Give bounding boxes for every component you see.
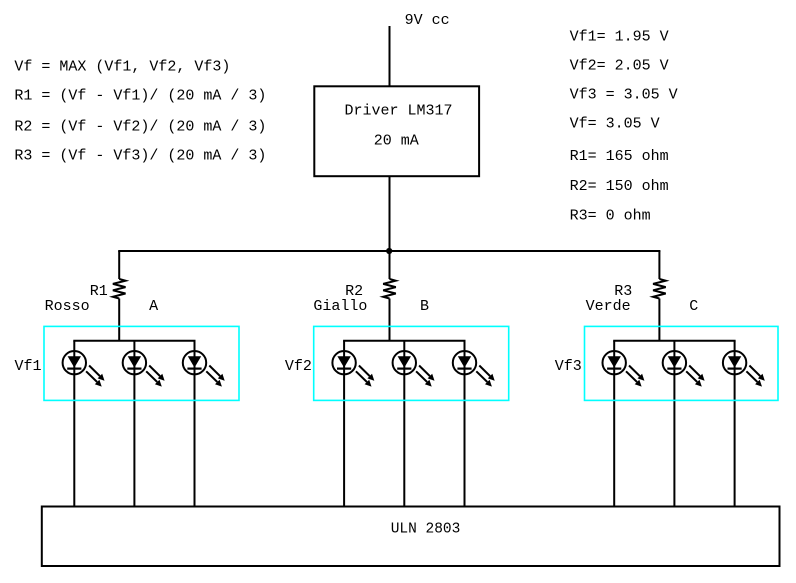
- driver U1: LM317 current regulator box: [314, 86, 479, 176]
- svg-text:Vf1= 1.95 V: Vf1= 1.95 V: [570, 28, 669, 45]
- svg-text:Vf3 = 3.05 V: Vf3 = 3.05 V: [570, 87, 678, 104]
- wire: bus down to resistor R3: [658, 251, 660, 279]
- wire: bus down to resistor R2: [389, 251, 391, 279]
- svg-text:R3 = (Vf - Vf3)/ (20 mA / 3): R3 = (Vf - Vf3)/ (20 mA / 3): [14, 148, 266, 165]
- svg-text:Vf2: Vf2: [285, 358, 312, 375]
- svg-text:R2= 150 ohm: R2= 150 ohm: [570, 178, 669, 195]
- wire: resistor R3 to LED connector: [658, 299, 660, 341]
- wire: LED D7 lead down to ULN2803 input: [613, 341, 615, 507]
- wire: LED D2 lead down to ULN2803 input: [133, 341, 135, 507]
- wire: LED D5 lead down to ULN2803 input: [403, 341, 405, 507]
- LED D9 (Verde): [723, 351, 765, 387]
- wire: horizontal distribution bus: [118, 250, 660, 252]
- resistor R2: [383, 279, 396, 299]
- driver U2: ULN2803 box: [42, 507, 780, 567]
- svg-text:A: A: [149, 298, 158, 315]
- svg-text:20 mA: 20 mA: [374, 133, 419, 150]
- LED group B bounding box (cyan): [314, 326, 509, 400]
- wire: resistor R2 to LED connector: [389, 299, 391, 341]
- svg-text:Giallo: Giallo: [313, 298, 367, 315]
- junction: bus node dot: [386, 248, 392, 254]
- wire: LED group C top connector: [613, 340, 735, 342]
- LED D8 (Verde): [663, 351, 705, 387]
- wire: LED group A top connector: [73, 340, 195, 342]
- wire: LED D3 lead down to ULN2803 input: [194, 341, 196, 507]
- wire: bus down to resistor R1: [118, 251, 120, 279]
- LED group A bounding box (cyan): [44, 326, 239, 400]
- svg-text:Rosso: Rosso: [45, 298, 90, 315]
- wire: 9V supply to driver input: [389, 26, 391, 87]
- wire: LED D9 lead down to ULN2803 input: [734, 341, 736, 507]
- svg-text:Vf = MAX (Vf1, Vf2, Vf3): Vf = MAX (Vf1, Vf2, Vf3): [14, 58, 230, 75]
- svg-text:R1: R1: [90, 283, 108, 300]
- LED D7 (Verde): [603, 351, 645, 387]
- svg-text:R3= 0 ohm: R3= 0 ohm: [570, 207, 651, 224]
- LED D5 (Giallo): [393, 351, 435, 387]
- svg-text:R2 = (Vf - Vf2)/ (20 mA / 3): R2 = (Vf - Vf2)/ (20 mA / 3): [14, 119, 266, 136]
- LED group C bounding box (cyan): [585, 326, 779, 400]
- svg-text:R1= 165 ohm: R1= 165 ohm: [570, 148, 669, 165]
- svg-text:Vf3: Vf3: [555, 358, 582, 375]
- LED D4 (Giallo): [332, 351, 374, 387]
- svg-text:Driver LM317: Driver LM317: [344, 102, 452, 119]
- svg-text:9V cc: 9V cc: [405, 12, 450, 29]
- LED D2 (Rosso): [123, 351, 165, 387]
- resistor R1: [113, 279, 126, 299]
- wire: LED D1 lead down to ULN2803 input: [73, 341, 75, 507]
- wire: LED group B top connector: [343, 340, 465, 342]
- svg-text:ULN 2803: ULN 2803: [391, 522, 461, 538]
- wire: LED D8 lead down to ULN2803 input: [673, 341, 675, 507]
- svg-text:C: C: [689, 298, 698, 315]
- wire: LED D4 lead down to ULN2803 input: [343, 341, 345, 507]
- svg-text:Vf= 3.05 V: Vf= 3.05 V: [570, 115, 660, 132]
- wire: resistor R1 to LED connector: [118, 299, 120, 341]
- svg-text:R1 = (Vf - Vf1)/ (20 mA / 3): R1 = (Vf - Vf1)/ (20 mA / 3): [14, 87, 266, 104]
- wire: LED D6 lead down to ULN2803 input: [464, 341, 466, 507]
- LED D6 (Giallo): [453, 351, 495, 387]
- svg-text:Vf1: Vf1: [15, 358, 42, 375]
- resistor R3: [653, 279, 666, 299]
- svg-text:Verde: Verde: [586, 298, 631, 315]
- LED D1 (Rosso): [63, 351, 105, 387]
- LED D3 (Rosso): [183, 351, 225, 387]
- svg-text:Vf2= 2.05 V: Vf2= 2.05 V: [570, 58, 669, 75]
- wire: driver output to distribution bus: [389, 176, 391, 251]
- svg-text:B: B: [420, 298, 429, 315]
